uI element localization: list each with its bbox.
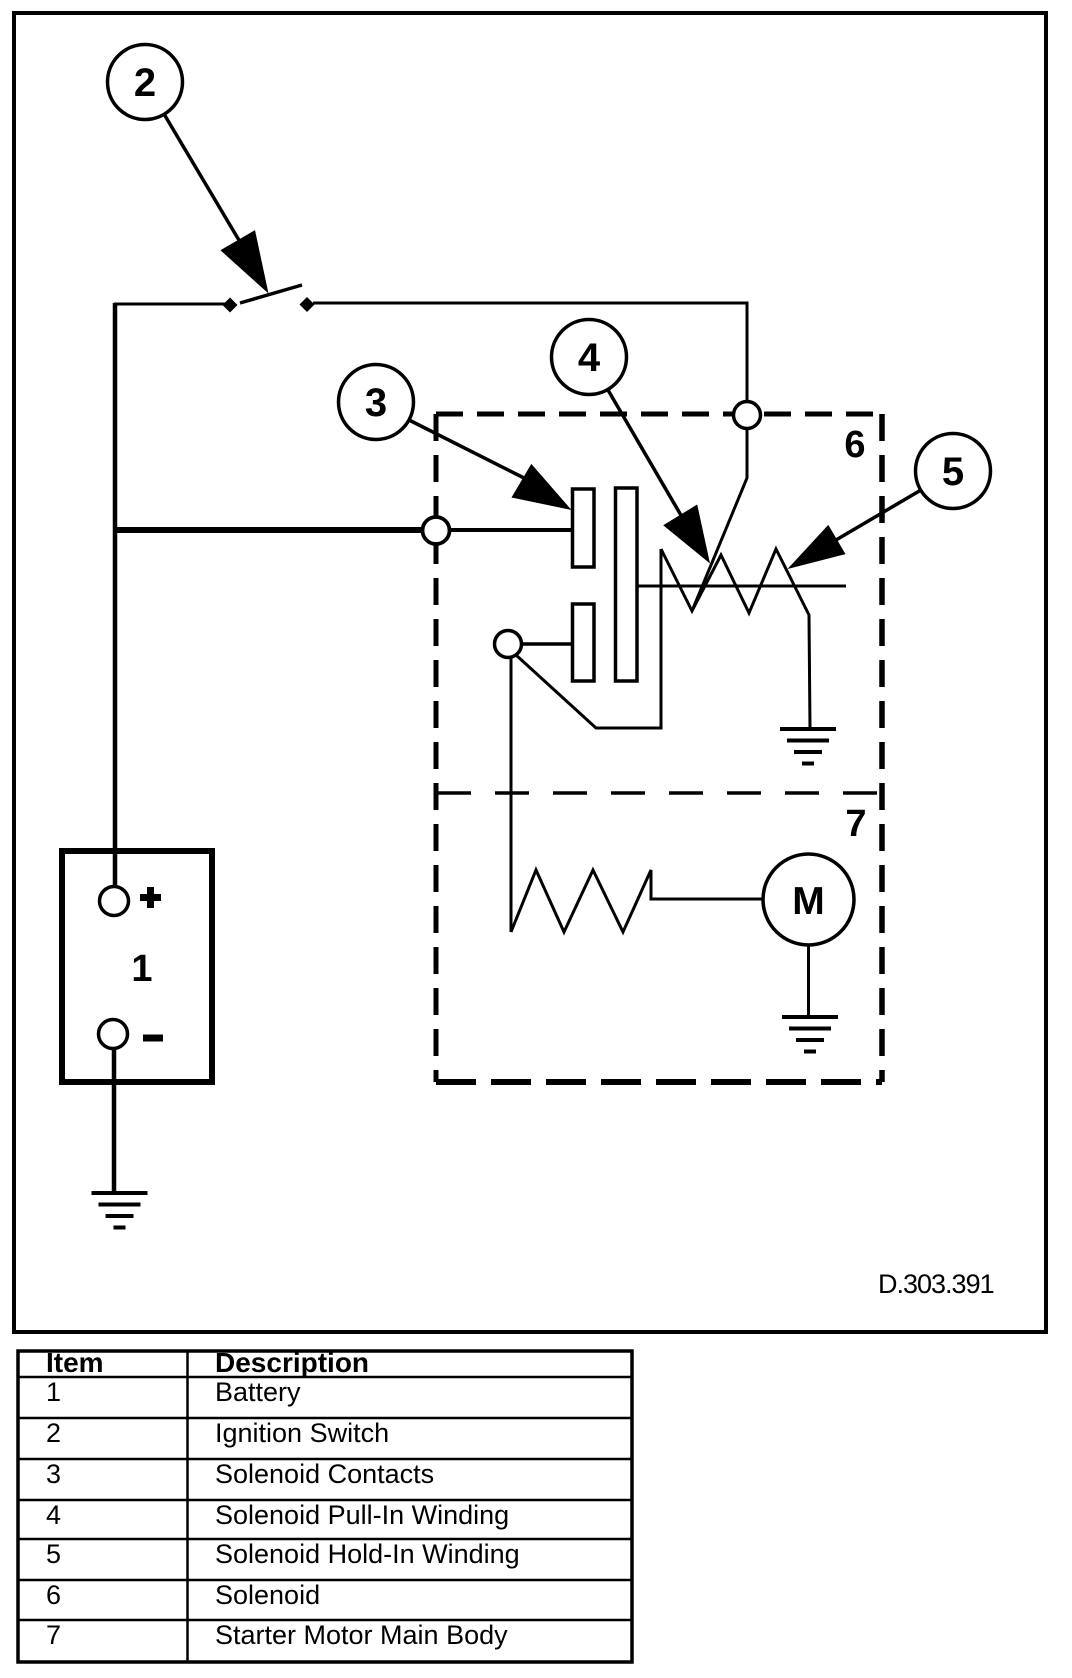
- svg-text:4: 4: [46, 1500, 61, 1530]
- field winding (starter motor): [511, 870, 763, 932]
- svg-text:Item: Item: [46, 1347, 104, 1378]
- wire node B to upper contact: [448, 528, 572, 532]
- wire motor to ground: [807, 944, 810, 1018]
- svg-text:1: 1: [131, 948, 152, 990]
- ignition switch 2: [223, 285, 315, 313]
- node B (contact feed): [423, 517, 450, 544]
- wire node A to windings: [692, 428, 747, 611]
- wire battery to contacts (thick): [113, 527, 423, 533]
- motor M: [763, 854, 854, 945]
- solenoid winding zigzag (pull-in 4 / hold-in 5): [661, 549, 810, 728]
- legend table frame: [18, 1351, 632, 1662]
- svg-text:2: 2: [134, 61, 156, 105]
- svg-text:7: 7: [845, 803, 866, 845]
- wire battery positive riser: [113, 303, 118, 888]
- svg-text:6: 6: [844, 424, 865, 466]
- svg-text:Solenoid: Solenoid: [215, 1580, 320, 1610]
- wire switch to left riser: [114, 303, 226, 306]
- wire pull-in winding to node C: [516, 549, 661, 728]
- svg-text:Solenoid Hold-In Winding: Solenoid Hold-In Winding: [215, 1539, 520, 1569]
- ground (solenoid): [780, 729, 836, 764]
- svg-text:Starter Motor Main Body: Starter Motor Main Body: [215, 1620, 508, 1650]
- callout balloon 4: [552, 320, 711, 564]
- wire switch to solenoid node: [313, 303, 747, 404]
- svg-text:5: 5: [46, 1539, 61, 1569]
- armature link line: [637, 585, 846, 588]
- svg-text:Battery: Battery: [215, 1377, 301, 1407]
- callout balloon 2: [108, 45, 269, 294]
- svg-text:Ignition Switch: Ignition Switch: [215, 1418, 389, 1448]
- node A (solenoid feed): [734, 402, 761, 429]
- wire node C to lower contact: [521, 642, 572, 646]
- svg-text:3: 3: [365, 381, 387, 425]
- ground (motor): [782, 1017, 838, 1052]
- wire battery negative to ground: [112, 1048, 117, 1193]
- wire node C to field winding: [510, 656, 513, 932]
- svg-text:6: 6: [46, 1580, 61, 1610]
- svg-text:Solenoid Pull-In Winding: Solenoid Pull-In Winding: [215, 1500, 509, 1530]
- svg-text:Description: Description: [215, 1347, 369, 1378]
- callout balloon 3: [339, 365, 572, 511]
- ground (battery): [92, 1193, 148, 1228]
- svg-text:7: 7: [46, 1620, 61, 1650]
- node C (lower contact): [495, 631, 522, 658]
- solenoid contacts 3: [573, 488, 638, 681]
- svg-text:2: 2: [46, 1418, 61, 1448]
- svg-text:D.303.391: D.303.391: [878, 1269, 994, 1299]
- legend table text: [46, 1347, 369, 1378]
- battery 1: [62, 851, 212, 1082]
- svg-text:Solenoid Contacts: Solenoid Contacts: [215, 1459, 434, 1489]
- svg-text:5: 5: [942, 450, 964, 494]
- svg-text:1: 1: [46, 1377, 61, 1407]
- svg-text:3: 3: [46, 1459, 61, 1489]
- solenoid box 6 (dashed): [436, 414, 882, 1082]
- svg-text:4: 4: [578, 336, 601, 380]
- callout balloon 5: [788, 434, 991, 570]
- svg-text:M: M: [792, 880, 825, 923]
